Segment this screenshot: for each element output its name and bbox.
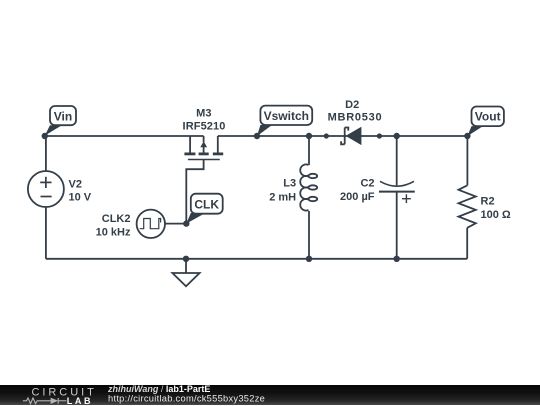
node label CLK xyxy=(186,194,222,224)
wire top left: Vin node to MOSFET xyxy=(45,135,204,137)
svg-text:L3: L3 xyxy=(283,178,296,190)
ground xyxy=(172,273,199,286)
label L3 value xyxy=(269,178,296,204)
node dot CLK xyxy=(183,220,189,226)
M3 arrow xyxy=(200,141,207,147)
node dot L3 top xyxy=(306,133,312,139)
wire R2 bottom stub xyxy=(466,228,468,259)
node label Vout xyxy=(467,107,504,137)
resistor R2 xyxy=(459,185,476,228)
clock source CLK2 xyxy=(137,210,165,238)
wire C2 bottom stub xyxy=(396,192,398,259)
wire left branch: Vin node down to V2 top xyxy=(45,136,47,171)
label V2 value xyxy=(69,178,92,203)
node dot C2 bottom xyxy=(394,256,400,262)
label C2 value xyxy=(340,178,375,204)
node dot ground junction xyxy=(183,256,189,262)
svg-text:MBR0530: MBR0530 xyxy=(328,111,383,123)
wire L3 top stub xyxy=(308,136,310,165)
svg-text:Vout: Vout xyxy=(475,110,501,124)
node dot Vout xyxy=(464,133,470,139)
svg-text:CLK2: CLK2 xyxy=(102,213,131,225)
svg-text:Vin: Vin xyxy=(54,109,72,123)
node dot diode cathode xyxy=(377,133,382,138)
label R2 value xyxy=(481,195,511,221)
node dot junction Vswitch xyxy=(254,133,260,139)
svg-text:2 mH: 2 mH xyxy=(269,192,296,204)
svg-text:LAB: LAB xyxy=(67,396,93,406)
wire MOSFET gate to CLK node xyxy=(186,160,203,224)
svg-text:R2: R2 xyxy=(481,195,495,207)
node dot Vin xyxy=(42,133,48,139)
node label Vswitch xyxy=(257,106,312,137)
inductor L3 xyxy=(300,164,317,210)
wire bottom rail xyxy=(46,258,467,260)
svg-text:100 Ω: 100 Ω xyxy=(481,209,511,221)
svg-text:M3: M3 xyxy=(196,107,211,119)
svg-text:CLK: CLK xyxy=(194,197,219,211)
logo resistor-diode icon xyxy=(23,397,67,403)
svg-text:IRF5210: IRF5210 xyxy=(183,120,226,132)
label CLK2 value xyxy=(96,213,131,239)
svg-text:200 µF: 200 µF xyxy=(340,191,375,203)
svg-text:10 V: 10 V xyxy=(69,192,92,204)
wire top right: MOSFET to Vout node xyxy=(218,135,468,137)
svg-text:http://circuitlab.com/ck555bxy: http://circuitlab.com/ck555bxy352ze xyxy=(108,393,265,403)
svg-text:10 kHz: 10 kHz xyxy=(96,227,131,239)
wire R2 top stub xyxy=(466,136,468,185)
node label Vin xyxy=(45,106,76,136)
label M3 xyxy=(183,107,226,132)
wire C2 top stub xyxy=(396,136,398,185)
node dot C2 top xyxy=(394,133,400,139)
transistor M3 (PMOS) xyxy=(184,136,223,160)
voltage source V2 xyxy=(28,171,64,207)
svg-text:D2: D2 xyxy=(345,99,359,111)
diode D2 (Schottky) xyxy=(341,128,348,145)
node dot L3 bottom xyxy=(306,256,312,262)
wire ground stub xyxy=(185,259,187,273)
wire L3 bottom stub xyxy=(308,211,310,259)
capacitor C2 (polarized) xyxy=(379,181,415,203)
wire V2 bottom to bottom rail xyxy=(45,207,47,259)
wire CLK2 output to CLK node xyxy=(165,223,186,225)
svg-text:C2: C2 xyxy=(360,178,374,190)
svg-text:V2: V2 xyxy=(69,178,82,190)
svg-text:Vswitch: Vswitch xyxy=(264,109,309,123)
footer bar xyxy=(0,385,540,406)
label D2 xyxy=(328,99,383,123)
node dot diode anode xyxy=(324,133,329,138)
